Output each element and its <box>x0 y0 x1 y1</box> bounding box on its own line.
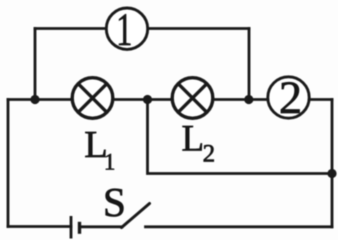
wire battery to switch pivot <box>80 225 123 228</box>
wire middle horizontal main row <box>8 98 332 101</box>
wire lower middle branch from node between lamps <box>148 100 333 174</box>
wire bottom left to battery <box>8 225 71 228</box>
wire left edge vertical <box>7 100 10 227</box>
wire top horizontal <box>35 27 249 30</box>
lamp L2 <box>172 78 213 119</box>
wire bottom right from switch contact to corner <box>146 225 333 228</box>
ammeter 1 (circle) <box>106 8 147 49</box>
lamp L1 <box>72 78 113 119</box>
node junction dot C (left of meter 2) <box>244 95 253 104</box>
battery B1 short plate (-) <box>78 222 81 234</box>
svg-text:2: 2 <box>203 141 216 168</box>
svg-text:2: 2 <box>279 73 302 124</box>
svg-text:S: S <box>103 179 126 225</box>
node junction dot B (between lamps) <box>143 95 152 104</box>
svg-text:1: 1 <box>104 150 116 175</box>
battery B1 long plate (+) <box>70 216 73 239</box>
svg-text:1: 1 <box>116 3 132 55</box>
wire left branch vertical to meter 1 <box>34 29 37 100</box>
svg-text:L: L <box>182 119 205 160</box>
node junction dot A (left) <box>30 95 39 104</box>
node junction dot D (right edge) <box>327 169 336 178</box>
ammeter 2 (circle) <box>268 77 309 118</box>
wire right edge vertical <box>331 100 334 227</box>
wire right branch vertical from top to node B <box>248 29 251 100</box>
switch S blade <box>122 204 150 228</box>
